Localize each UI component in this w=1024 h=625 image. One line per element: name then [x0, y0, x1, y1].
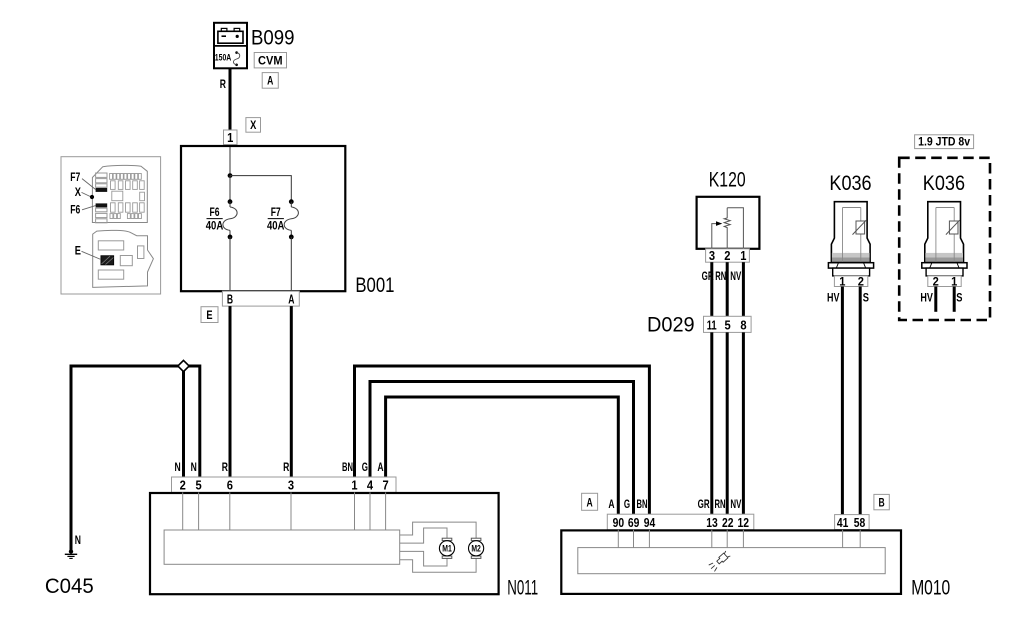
K120 actuating arrow [712, 221, 723, 249]
svg-text:94: 94 [644, 516, 656, 530]
svg-text:X: X [75, 187, 81, 199]
svg-text:N: N [191, 462, 197, 474]
svg-text:NV: NV [730, 499, 741, 511]
connector D029 pins 11 5 8 [704, 316, 752, 332]
svg-text:F7: F7 [70, 172, 80, 184]
N011 internal pin stubs [183, 492, 386, 530]
wire pin1 into box [229, 147, 231, 176]
svg-text:150A: 150A [215, 53, 232, 64]
svg-text:M1: M1 [442, 543, 452, 554]
svg-text:2: 2 [180, 479, 186, 493]
wire module to M1 bottom [400, 551, 447, 566]
K036 left pins 1 2 [834, 276, 867, 288]
svg-text:90: 90 [613, 516, 625, 530]
wire module to M2 bottom [400, 556, 476, 572]
svg-text:5: 5 [196, 479, 202, 493]
svg-text:B099: B099 [251, 26, 295, 49]
svg-text:A: A [587, 496, 593, 510]
inset upper fusebox outline [92, 165, 147, 222]
K120 connector pins 3 2 1 [706, 249, 750, 263]
svg-text:A: A [267, 74, 273, 88]
svg-text:C045: C045 [45, 575, 94, 598]
svg-text:13: 13 [706, 516, 718, 530]
K036 left body [828, 202, 873, 276]
node junction [228, 173, 233, 178]
ECU box N011 [150, 493, 499, 594]
svg-text:M010: M010 [911, 577, 950, 600]
svg-text:5: 5 [725, 318, 731, 332]
wire K036 right pin1 stub [953, 287, 956, 312]
fuse box B001 [181, 146, 345, 291]
variant label 1.9 JTD 8v [915, 135, 974, 149]
connector pins B A of B001 [222, 291, 299, 306]
svg-text:11: 11 [707, 318, 717, 332]
wire G N011 pin4 to M010 pin69 [370, 382, 634, 515]
svg-text:N: N [75, 535, 81, 547]
svg-text:22: 22 [722, 516, 734, 530]
svg-text:E: E [206, 308, 212, 322]
svg-text:R: R [222, 462, 229, 474]
engine ECU box M010 [561, 530, 901, 594]
svg-text:D029: D029 [647, 314, 695, 337]
svg-text:E: E [75, 245, 81, 257]
boxed label A [262, 73, 278, 89]
svg-text:B: B [879, 496, 885, 510]
svg-text:S: S [863, 293, 869, 305]
svg-text:2: 2 [724, 249, 730, 263]
fuse 150A inside B099 [215, 51, 240, 66]
boxed label A at M010 [582, 493, 598, 510]
M010 internal module rect [578, 548, 885, 574]
wire K036 pin1 to M010 pin41 [841, 287, 844, 515]
wire D029 to M010 pin13 [710, 332, 713, 514]
K036 right body [922, 202, 967, 276]
wire K036 right pin2 stub [934, 287, 937, 312]
svg-text:7: 7 [383, 479, 389, 493]
svg-text:M2: M2 [471, 543, 481, 554]
boxed label X [246, 118, 261, 133]
svg-text:CVM: CVM [258, 54, 283, 68]
N011 internal module rect [164, 530, 400, 564]
ground C045 [65, 549, 77, 558]
fuse F6 40A [206, 199, 237, 239]
svg-text:1.9 JTD 8v: 1.9 JTD 8v [918, 135, 970, 149]
junction diamond [178, 360, 189, 371]
svg-text:BN: BN [637, 499, 648, 511]
svg-text:R: R [220, 79, 227, 91]
svg-text:F7: F7 [271, 207, 281, 219]
svg-text:6: 6 [227, 479, 233, 493]
battery B099 [214, 23, 247, 69]
relay E highlighted [101, 256, 114, 265]
wire A N011 pin7 to M010 pin90 [386, 397, 619, 514]
wire R battery to pin 1 [229, 68, 232, 130]
svg-text:40A: 40A [267, 221, 285, 233]
K120 box [697, 197, 760, 249]
variant dashed box [899, 158, 990, 320]
wire F6 to pin B [229, 237, 231, 290]
boxed label E [201, 307, 218, 323]
svg-text:B: B [227, 292, 233, 306]
ground wire C045 net [71, 366, 184, 551]
wire D029 to M010 pin12 [742, 332, 745, 514]
svg-text:N: N [175, 462, 181, 474]
N011 wire labels [175, 462, 384, 474]
svg-text:S: S [956, 293, 962, 305]
svg-text:RN: RN [715, 271, 726, 283]
K036 right pins 2 1 [928, 276, 961, 288]
svg-text:69: 69 [628, 516, 640, 530]
wire K120 pin3 to D029 [710, 262, 713, 316]
svg-text:4: 4 [367, 479, 373, 493]
svg-text:N011: N011 [507, 577, 538, 600]
svg-text:12: 12 [737, 516, 749, 530]
svg-text:HV: HV [920, 293, 933, 305]
svg-text:A: A [608, 499, 614, 511]
N011 connector strip pins 2 5 6 3 1 4 7 [172, 477, 397, 493]
K120 wire labels GR RN NV [702, 271, 742, 283]
K120 coil circuit [724, 208, 743, 249]
fuse F6 highlighted [96, 203, 108, 207]
svg-text:58: 58 [854, 516, 866, 530]
svg-text:G: G [362, 462, 368, 474]
svg-text:A: A [377, 462, 383, 474]
svg-text:B001: B001 [355, 274, 394, 297]
svg-text:G: G [624, 499, 630, 511]
CVM box [254, 53, 286, 68]
wire K120 pin2 to D029 [726, 262, 729, 316]
svg-text:41: 41 [837, 516, 849, 530]
wire branch to F7 [230, 176, 291, 202]
wire module to M1 top [400, 528, 447, 543]
fuse F7 highlighted [96, 188, 108, 192]
svg-text:F6: F6 [210, 207, 220, 219]
svg-text:A: A [288, 292, 294, 306]
wire K120 pin1 to D029 [742, 262, 745, 316]
svg-text:GR: GR [698, 499, 710, 511]
fusebox location inset [61, 157, 161, 294]
svg-text:K036: K036 [829, 172, 871, 195]
M010 connector A pins 90 69 94 13 22 12 [607, 514, 754, 530]
fuse F7 40A [267, 199, 298, 239]
inset lower slots [98, 241, 144, 279]
svg-text:R: R [283, 462, 290, 474]
motor M1 [439, 538, 454, 558]
svg-text:8: 8 [740, 318, 746, 332]
wire D029 to M010 pin22 [726, 332, 729, 514]
svg-text:F6: F6 [70, 205, 80, 217]
wire B001 pin B to N011 pin 6 [229, 306, 232, 477]
wire to F6 [229, 176, 231, 202]
wire diamond to pin 2 [182, 370, 185, 477]
wire K036 pin2 to M010 pin58 [859, 287, 862, 515]
svg-text:X: X [250, 118, 256, 132]
wire module to M2 top [400, 522, 476, 538]
injector icon [708, 550, 731, 572]
svg-text:40A: 40A [206, 221, 224, 233]
svg-text:HV: HV [827, 293, 840, 305]
svg-text:1: 1 [351, 479, 357, 493]
svg-text:3: 3 [288, 479, 294, 493]
wire diamond to pin 5 [184, 366, 200, 477]
M010 wire labels [608, 499, 741, 511]
svg-text:NV: NV [730, 271, 741, 283]
svg-text:K120: K120 [709, 169, 746, 192]
connector pin 1 [224, 130, 238, 145]
M010 connector B pins 41 58 [835, 515, 870, 530]
inset lower body outline [93, 230, 154, 287]
svg-text:1: 1 [740, 249, 746, 263]
inset right fuse slots [110, 174, 145, 219]
wire B001 pin A to N011 pin 3 [290, 306, 293, 477]
motor M2 [469, 538, 484, 558]
wire F7 to pin A [290, 237, 292, 290]
svg-text:RN: RN [715, 499, 726, 511]
wire BN N011 pin1 to M010 pin94 [355, 366, 650, 514]
boxed label B at M010 [874, 494, 889, 509]
svg-text:1: 1 [227, 131, 233, 145]
svg-text:K036: K036 [923, 172, 965, 195]
inset left fuse slots [96, 173, 107, 223]
svg-text:3: 3 [709, 249, 715, 263]
M010 internal pin stubs [618, 530, 860, 548]
svg-text:BN: BN [342, 462, 353, 474]
